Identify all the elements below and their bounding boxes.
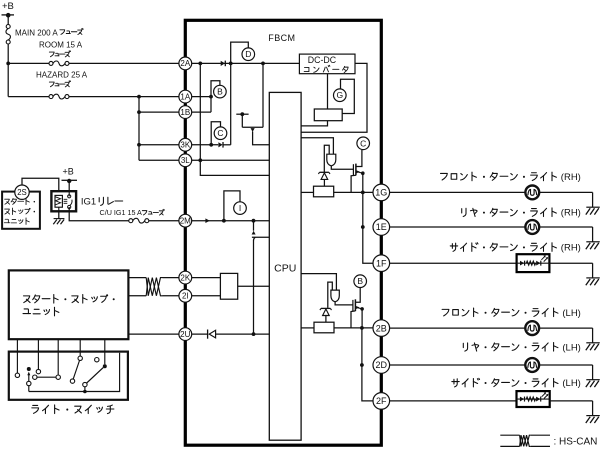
FBCM module box [185,20,381,445]
HAZARD 25A fuse [49,95,53,99]
label rear turn RH [462,208,557,217]
gate driver LH: CPU feed [301,274,336,291]
zener diode RH [320,171,329,173]
zener diode LH [321,307,330,309]
MOSFET Q3 [352,164,354,175]
connector 1B [179,106,192,119]
wire DC-DC output loop to CPU [301,63,367,132]
wire 2B/2D/2F bus [361,328,363,365]
wire hazard bus down [138,97,140,161]
rear turn lamp RH [525,220,539,234]
node hazard branch [137,95,141,99]
ground (side RH) [586,277,600,279]
IG1 relay contact [68,195,71,198]
svg-text:(LH): (LH) [562,308,580,319]
charge pump LH [331,290,339,302]
IG1 relay box [51,191,76,211]
svg-text:1F: 1F [376,258,387,268]
svg-text:2S: 2S [17,188,27,197]
svg-text:3L: 3L [181,156,190,165]
wire to 1B [139,111,179,113]
connector 2U [179,328,192,341]
wire 2D to rear turn lamp LH [390,364,526,366]
G coil box [314,109,342,121]
svg-text:: HS-CAN: : HS-CAN [554,436,598,447]
wire IG1 relay to 2M [69,207,129,221]
connector 2D [373,357,390,374]
wire +B internal down to CPU [200,63,269,175]
connector 3L [179,154,192,167]
side turn light RH (LED) [517,254,550,272]
svg-text:C/U IG1 15 A: C/U IG1 15 A [100,208,143,217]
wire CPU to driver RH [301,191,313,193]
MOSFET Q4 source tie [351,311,355,328]
C/U IG1 15A fuse [129,219,133,223]
ground (rear RH) [586,241,600,243]
svg-text:MAIN 200 A: MAIN 200 A [15,29,58,38]
svg-text:I: I [239,203,241,213]
svg-text:1B: 1B [180,108,190,117]
svg-text:2F: 2F [376,396,387,406]
svg-text:2I: 2I [182,292,189,301]
svg-text:2B: 2B [376,323,387,333]
diode D3 (2U) [207,330,209,339]
HS-CAN twisted pair to 2K/2I [128,277,146,279]
wire 1G/1E/1F bus [362,192,364,227]
svg-text:2A: 2A [180,59,190,68]
connector 1A [179,90,192,103]
ground (IG1 relay) [58,211,60,218]
diode D2 (3K) [218,142,222,147]
connector 2A [179,57,192,70]
relay coil G hook [341,79,355,113]
connector 1F [373,255,390,272]
relay coil I [234,202,247,215]
label front turn RH [441,172,557,181]
driver block LH [314,322,334,333]
connector 1E [373,219,390,236]
wire 1A into module [192,96,211,98]
svg-text:(LH): (LH) [562,342,580,353]
label side turn RH [450,243,556,252]
relay coil D [242,48,255,61]
HS-CAN legend symbol [500,434,519,436]
light switch box [9,352,128,400]
svg-text:C: C [217,128,223,138]
wire CPU to driver LH [301,327,314,329]
svg-text:1E: 1E [376,222,387,232]
diode D1 (2A bus) [221,61,225,66]
wire start-stop to 2U [128,333,179,335]
connector 2K [179,271,192,284]
DC-DC converter block [299,54,355,74]
connector 3K [179,138,192,151]
wire +B to 2A [6,62,10,66]
svg-text:(RH): (RH) [561,208,581,219]
relay coil G [334,89,347,102]
wire 2U to CPU [192,333,208,335]
ROOM 15A fuse [49,61,53,65]
svg-text:2D: 2D [376,360,388,370]
svg-text:+B: +B [2,1,14,12]
transistor Q2 [253,221,255,231]
relay coil B hook [211,81,220,112]
gate driver RH: CPU feed [301,138,333,155]
svg-text:(RH): (RH) [561,172,581,183]
switch common rail [29,353,120,392]
svg-text:DC-DC: DC-DC [308,55,337,65]
wire 1E to rear turn lamp RH [390,226,526,228]
switch stub wires [16,339,18,373]
relay contact B [354,275,367,288]
connector 2I [179,289,192,302]
signal arrow (2M) [205,218,209,223]
svg-text:HAZARD 25 A: HAZARD 25 A [36,70,88,79]
label front turn LH [442,308,558,317]
wire 2S to IG1 relay coil [22,178,59,191]
charge pump RH [327,154,336,166]
wire 2I to interface [192,295,221,297]
label side turn LH [452,378,558,387]
svg-text:B: B [357,276,363,286]
relay coil C hook [211,122,220,145]
svg-text:FBCM: FBCM [268,33,295,43]
wire to 3K [139,144,179,146]
svg-text:ROOM 15 A: ROOM 15 A [39,40,83,49]
gate driver LH: zener hook [328,282,333,308]
svg-text:C: C [360,138,366,148]
connector 2F [373,393,390,410]
relay contact C [357,137,370,150]
ground (front LH) [586,342,600,344]
wire 2M to CPU [192,220,270,222]
relay coil D hook [231,42,249,63]
transistor Q1 [262,63,264,127]
switch lever with arrow [27,367,31,371]
wire +B to 1A (hazard) [8,96,49,98]
label rear turn LH [463,343,558,352]
connector 2B [373,320,390,337]
svg-text:2U: 2U [180,330,190,339]
switch contacts [15,373,19,377]
wire 1B into module [192,111,211,113]
ground (front RH) [586,206,600,208]
relay coil I hook [224,191,240,221]
svg-text:IG1: IG1 [81,197,96,208]
gate driver RH: zener hook [324,145,329,172]
wire 2K to interface [192,277,221,279]
wire 2B to front turn lamp LH [390,327,526,329]
connector 2S [15,185,29,199]
wire driver RH to 1G node [334,191,373,193]
wire 3K into module [192,144,219,146]
wire interface to CPU [238,285,270,287]
side turn light LH (LED) [517,391,550,407]
relay coil C [214,127,227,140]
CAN interface block [220,273,237,299]
ground (side LH) [586,415,600,417]
front turn lamp RH [525,186,539,200]
svg-text:(LH): (LH) [562,378,580,389]
connector 1G [373,184,390,201]
svg-text:CPU: CPU [274,262,296,274]
svg-text:3K: 3K [180,141,190,150]
IG1 relay coil [55,195,62,207]
svg-text:B: B [217,87,223,97]
ground (rear LH) [586,379,600,381]
wire 1G to front turn lamp RH [390,191,526,193]
front turn lamp LH [525,321,539,335]
svg-text:2M: 2M [180,217,191,226]
svg-text:2K: 2K [180,273,190,282]
wire 1F to side turn light RH [390,262,517,264]
start-stop unit (main box) [9,270,129,339]
rear turn lamp LH [525,358,539,372]
wire G box to CPU [301,121,327,126]
CPU block [269,92,301,440]
MOSFET Q3 source tie [351,175,356,192]
connector 2M [179,214,192,227]
wire D-diode bus down to 3K diode [230,63,232,144]
driver block RH [314,186,334,197]
relay coil B [214,85,227,98]
wire 2A bus [192,62,300,64]
wire 2F to side turn light LH [390,400,517,402]
svg-text:D: D [245,49,251,59]
svg-text:1A: 1A [180,92,190,101]
MAIN 200A fusible link [7,15,9,24]
svg-text:G: G [336,90,343,100]
svg-text:+B: +B [63,166,74,176]
wire DC-DC to G coil box [327,74,329,109]
wire 3L to CPU [192,159,270,161]
wire driver LH to 2B node [334,327,373,329]
start-stop unit (small box) [2,192,40,229]
wire to 3L [139,159,179,161]
svg-text:(RH): (RH) [561,243,581,254]
svg-text:1G: 1G [375,188,387,198]
MOSFET Q4 [352,300,354,311]
